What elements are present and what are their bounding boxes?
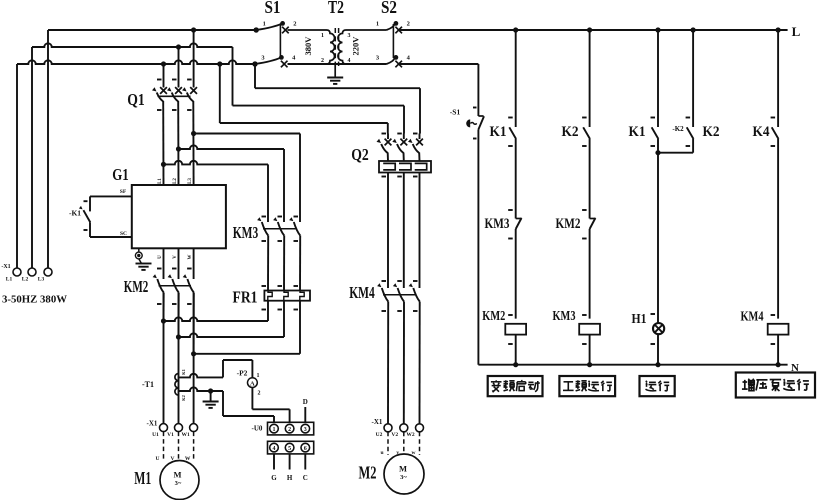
svg-text:S2: S2 [381,0,397,17]
svg-text:KM2: KM2 [124,277,149,296]
svg-text:-P2: -P2 [237,369,248,378]
svg-text:u: u [380,450,383,456]
svg-text:KM2: KM2 [482,309,505,324]
svg-text:L2: L2 [173,178,178,184]
svg-text:G: G [271,474,277,482]
svg-text:V2: V2 [391,432,398,438]
svg-text:KM4: KM4 [741,310,764,325]
svg-text:K2: K2 [562,124,579,140]
svg-text:L2: L2 [22,277,29,283]
svg-text:W1: W1 [181,432,190,438]
svg-text:U1: U1 [152,432,159,438]
svg-text:M1: M1 [134,468,151,488]
svg-text:KM2: KM2 [556,216,581,232]
svg-text:-T1: -T1 [142,380,154,389]
svg-text:5: 5 [288,446,291,452]
svg-text:L3: L3 [188,178,193,184]
svg-text:2: 2 [258,391,261,397]
svg-text:-X1: -X1 [1,264,10,270]
svg-text:KM3: KM3 [553,309,576,324]
svg-text:3: 3 [348,33,351,39]
svg-text:1: 1 [321,33,324,39]
svg-text:2: 2 [288,427,291,433]
svg-text:4: 4 [348,58,351,64]
svg-text:-K1: -K1 [69,209,81,218]
svg-text:1: 1 [376,21,379,28]
svg-text:K1: K1 [181,368,186,375]
svg-text:D: D [303,398,308,406]
svg-text:H: H [287,474,293,482]
svg-text:M2: M2 [359,463,377,483]
svg-text:W: W [188,255,193,260]
svg-text:220V: 220V [351,36,361,56]
svg-text:2: 2 [293,21,296,28]
svg-text:1: 1 [273,427,276,433]
svg-text:-K2: -K2 [672,125,684,133]
svg-text:L3: L3 [38,277,45,283]
svg-text:K2: K2 [703,124,720,140]
svg-text:L: L [792,24,801,39]
svg-text:3~: 3~ [400,474,407,481]
svg-text:3: 3 [304,427,307,433]
svg-text:1: 1 [257,373,260,379]
svg-text:3~: 3~ [175,480,182,487]
svg-text:6: 6 [304,446,307,452]
svg-text:FR1: FR1 [233,288,258,307]
svg-text:-X1: -X1 [147,420,158,428]
svg-text:L1: L1 [158,178,163,184]
svg-text:U: U [158,255,163,259]
svg-text:KM4: KM4 [349,283,375,302]
svg-text:L1: L1 [6,277,13,283]
svg-text:KM3: KM3 [233,223,259,242]
svg-text:-U0: -U0 [252,425,263,433]
svg-text:M: M [173,470,181,480]
svg-text:W2: W2 [406,432,415,438]
svg-text:380V: 380V [303,36,313,56]
svg-text:4: 4 [273,446,276,452]
svg-text:Q1: Q1 [127,90,145,109]
svg-text:U: U [156,456,160,462]
svg-text:K2: K2 [181,394,186,401]
svg-text:V1: V1 [167,432,174,438]
svg-text:1: 1 [263,21,266,28]
svg-text:K1: K1 [490,124,507,140]
svg-text:2: 2 [407,21,410,28]
svg-text:G1: G1 [112,165,129,184]
svg-text:K1: K1 [629,124,646,140]
svg-text:3-50HZ 380W: 3-50HZ 380W [2,294,67,306]
svg-text:U2: U2 [376,432,383,438]
svg-text:SF: SF [120,189,127,195]
svg-text:K4: K4 [753,124,770,140]
svg-text:-X1: -X1 [372,418,383,426]
svg-text:H1: H1 [632,312,647,327]
svg-text:-S1: -S1 [450,108,461,117]
svg-text:2: 2 [321,58,324,64]
svg-text:T2: T2 [328,0,344,17]
svg-text:S1: S1 [265,0,281,17]
svg-text:V: V [173,255,178,259]
svg-text:Q2: Q2 [351,145,369,164]
svg-text:KM3: KM3 [485,216,510,232]
svg-text:C: C [303,474,308,482]
svg-text:A: A [250,380,255,387]
svg-text:M: M [399,464,407,474]
